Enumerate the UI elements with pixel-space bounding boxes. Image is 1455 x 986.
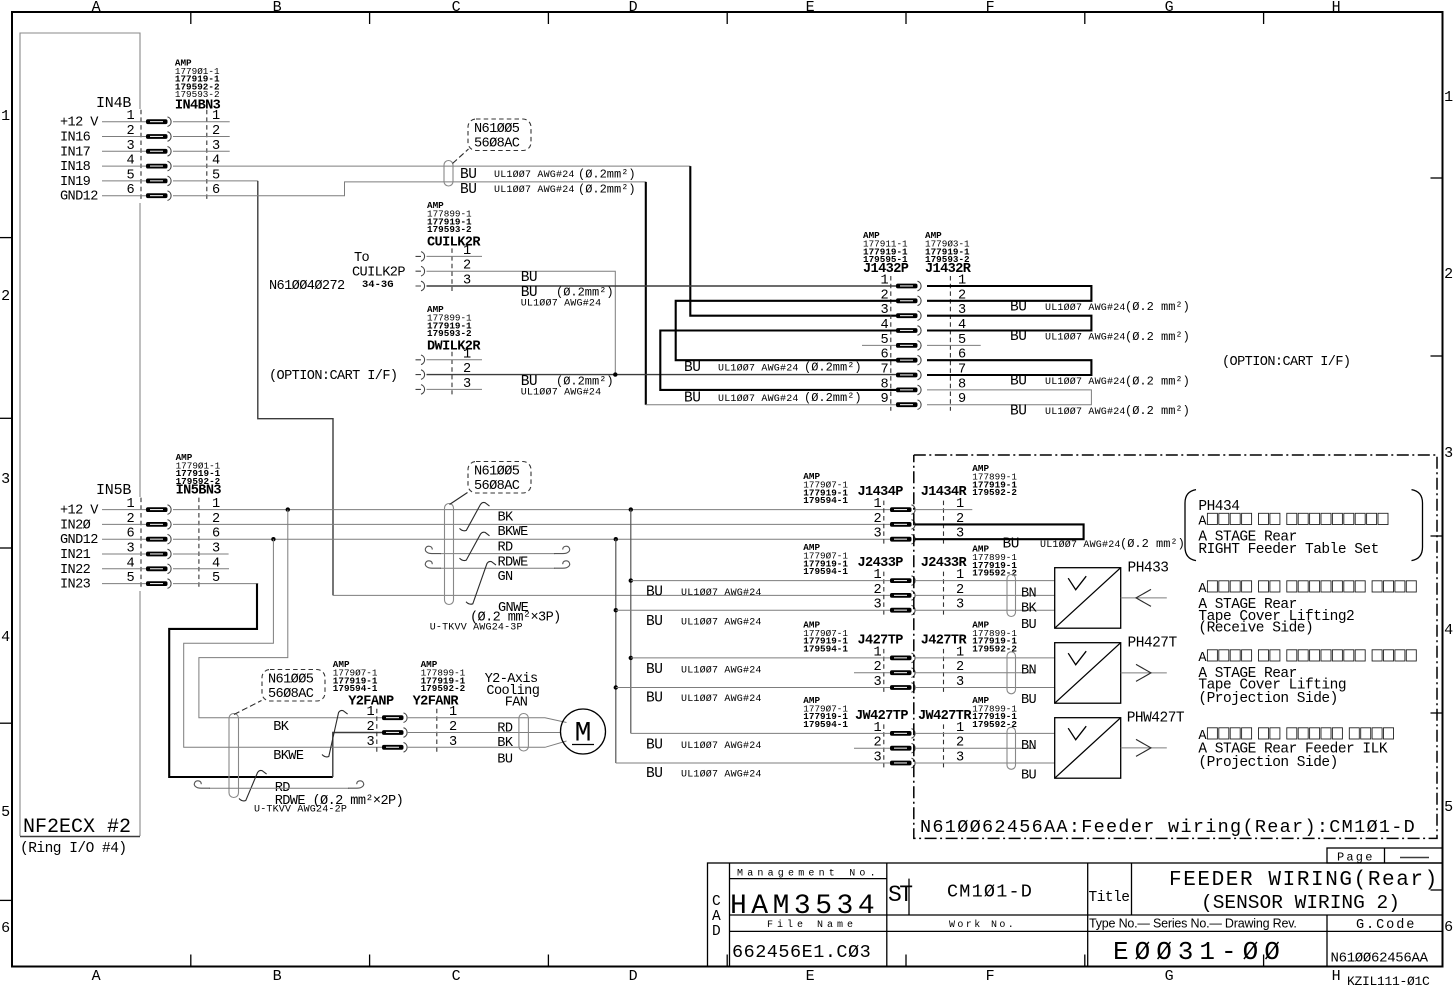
svg-text:IN23: IN23 [60,578,91,593]
part list AMP JW427TP [803,695,848,730]
svg-text:IN4BN3: IN4BN3 [175,99,221,114]
svg-text:Title: Title [1089,890,1130,906]
svg-text:N61ØØ5: N61ØØ5 [474,465,520,480]
svg-text:56Ø8AC: 56Ø8AC [268,687,314,702]
wire J427TP pin1 from +12V bus [629,656,633,660]
svg-text:179592-2: 179592-2 [972,643,1017,654]
wire JW427TP pin2 stub [854,747,890,749]
svg-text:BK: BK [273,720,290,735]
twist mark pair GN/GNWE [466,561,496,604]
svg-text:JW427TP: JW427TP [855,709,908,724]
svg-text:UL1ØØ7 AWG#24: UL1ØØ7 AWG#24 [1045,332,1126,344]
svg-text:IN17: IN17 [60,145,91,160]
svg-text:CUILK2R: CUILK2R [427,236,481,251]
part list AMP J427TR [972,619,1017,654]
wire IN18 BU UL1007 to J1432P pin3 [102,165,690,167]
part list AMP J2433R [972,544,1017,579]
wire J2433P pin1 from +12V bus [629,578,633,582]
svg-text:+12 V: +12 V [60,116,99,131]
svg-text:(Ring I/O #4): (Ring I/O #4) [20,841,127,857]
connector IN5B [60,482,220,593]
jp text: tape cover lifting2 (receive side) [1198,581,1416,597]
svg-text:1: 1 [1,108,10,125]
svg-text:179594-1: 179594-1 [803,643,848,654]
svg-text:UL1ØØ7 AWG#24: UL1ØØ7 AWG#24 [681,617,762,629]
wire loop J1434R pin2-pin3 BU [915,524,1084,539]
svg-text:N61ØØ62456AA: N61ØØ62456AA [1331,951,1429,967]
svg-text:J1432P: J1432P [863,262,909,277]
svg-text:EØØ31-ØØ: EØØ31-ØØ [1113,937,1286,967]
svg-text:2: 2 [1,288,10,305]
cable tie N61005 middle [445,504,454,605]
svg-text:BK: BK [498,510,515,525]
svg-text:A: A [92,968,101,985]
svg-text:BU: BU [1010,403,1026,419]
part list AMP J1434R [972,463,1017,498]
svg-text:BU: BU [1021,618,1037,633]
wire IN4B pin1 +12V stub [102,121,230,123]
svg-text:2: 2 [366,720,374,735]
svg-text:UL1ØØ7 AWG#24: UL1ØØ7 AWG#24 [1045,302,1126,314]
part list AMP J2433P [803,542,848,577]
svg-text:J1434P: J1434P [858,485,904,500]
twist mark pair RD/RDWE (fan) [239,770,267,800]
svg-text:J1432R: J1432R [925,262,972,277]
photo sensor PH433 [1055,568,1121,629]
svg-text:(Projection Side): (Projection Side) [1198,691,1337,707]
boundary N610062456AA feeder unit (dash-dot) [914,455,1437,838]
light beam arrow PHW427T [1121,739,1167,756]
svg-text:PH434: PH434 [1198,499,1239,515]
svg-text:J2433P: J2433P [858,556,904,571]
wire J2433P pin3 from GND bus [614,608,618,612]
svg-text:3: 3 [1,471,10,488]
svg-text:+12 V: +12 V [60,504,99,519]
svg-text:BU: BU [1010,300,1026,316]
svg-text:BK: BK [497,736,514,751]
svg-text:BKWE: BKWE [273,749,304,764]
svg-text:UL1ØØ7 AWG#24: UL1ØØ7 AWG#24 [681,664,762,676]
svg-text:N61ØØ62456AA:Feeder wiring(Rea: N61ØØ62456AA:Feeder wiring(Rear):CM1Ø1-D [920,817,1416,838]
wire IN23 RD to Y2FANP pin2 [102,583,258,585]
connector J1432P/J1432R [880,274,966,411]
svg-text:C: C [712,894,721,910]
wire JW427TP pin1 from +12V bus [631,732,890,734]
callout N61005 5608AC bottom [234,670,325,715]
svg-text:(OPTION:CART I/F): (OPTION:CART I/F) [1222,355,1350,370]
wire Y2FANR pin3 BU to fan [407,741,567,747]
svg-text:N61ØØ5: N61ØØ5 [474,122,520,137]
svg-text:IN21: IN21 [60,548,91,563]
svg-text:179594-1: 179594-1 [803,495,848,506]
connector JW427TP/JW427TR [873,721,964,768]
wire CUILK2R pin3 BU to J1432P pin1 [427,285,897,287]
svg-text:Type No.— Series No.— Drawing: Type No.— Series No.— Drawing Rev. [1089,917,1297,931]
wire IN19 to J2433P pin2 [102,180,258,182]
svg-text:HAM3534: HAM3534 [730,891,879,922]
light beam arrow PH427T [1121,664,1167,681]
svg-text:(Ø.2 mm²): (Ø.2 mm²) [1125,404,1190,418]
svg-text:UL1ØØ7 AWG#24: UL1ØØ7 AWG#24 [718,363,799,375]
svg-text:B: B [273,968,282,985]
wire loop J1432R pin8-pin9 BU [927,390,1091,405]
svg-text:9: 9 [880,392,888,407]
wire loop J1432R pin6-pin7 BU [927,360,1091,375]
cable tie N61005 top [444,161,453,187]
jp text: tape cover lifting (projection side) [1198,650,1416,666]
svg-text:DWILK2R: DWILK2R [427,340,481,355]
wire jumper J1432P pin4-pin8 BU [660,331,896,390]
svg-text:E: E [806,0,815,16]
callout N61005 5608AC top [453,119,532,164]
svg-text:B: B [273,0,282,16]
svg-text:(OPTION:CART I/F): (OPTION:CART I/F) [269,369,397,384]
svg-text:UL1ØØ7 AWG#24: UL1ØØ7 AWG#24 [494,184,575,196]
wires J427TR to PH427T with tie [915,658,1055,688]
part list AMP DWILK2R [427,304,472,339]
wire J427TP pin2 stub [854,672,890,674]
wire GN floating (0.2mm2x3P spare) [440,567,555,569]
svg-text:BU: BU [684,391,700,407]
wire RDWE floating (fan spare) + cable label [209,787,349,789]
wire Y2FANR pin1 RD to fan [407,718,567,723]
svg-text:BU: BU [1010,329,1026,345]
svg-text:BU: BU [1010,374,1026,390]
svg-text:UL1ØØ7 AWG#24: UL1ØØ7 AWG#24 [681,769,762,781]
svg-text:2: 2 [1444,266,1453,283]
part list AMP IN5BN3 [176,452,221,487]
svg-text:F: F [986,968,995,985]
svg-text:UL1ØØ7 AWG#24: UL1ØØ7 AWG#24 [521,387,602,399]
wire +12V BK to J1434P pin1 [102,509,890,511]
wire CUILK2R pin1 stub [427,255,483,257]
svg-text:4: 4 [1,629,10,646]
svg-text:RD: RD [497,721,513,736]
svg-text:3: 3 [880,303,888,318]
part list AMP IN4BN3 [175,57,220,100]
svg-text:(Ø.2 mm²): (Ø.2 mm²) [1125,330,1190,344]
connector CUILK2R [416,244,472,291]
svg-text:G.Code: G.Code [1356,918,1416,933]
cable tie N61005 bottom [229,714,239,798]
svg-text:3: 3 [1444,445,1453,462]
svg-text:(Ø.2 mm²): (Ø.2 mm²) [1120,537,1185,551]
svg-text:5: 5 [1444,799,1453,816]
svg-text:IN19: IN19 [60,175,91,190]
svg-text:1: 1 [1444,89,1453,106]
connector DWILK2R [416,347,472,394]
svg-text:34-3G: 34-3G [362,279,394,291]
part list AMP J1432P [863,230,908,265]
wire IN21 stub [102,553,229,555]
wire GND12 BU UL1007 to J1432P pin9 [102,182,646,196]
svg-text:J427TR: J427TR [921,633,968,648]
svg-text:4: 4 [1444,622,1453,639]
svg-text:ST: ST [888,882,912,908]
svg-text:C: C [452,968,461,985]
wire IN22 stub [102,568,229,570]
svg-text:(SENSOR WIRING 2): (SENSOR WIRING 2) [1201,892,1400,914]
svg-text:3: 3 [873,527,881,542]
svg-text:2: 2 [873,583,881,598]
svg-text:FAN: FAN [505,696,528,711]
svg-text:BU: BU [646,585,662,601]
svg-text:179593-2: 179593-2 [427,328,472,339]
svg-text:179592-2: 179592-2 [972,487,1017,498]
wire IN4B pin3 IN17 stub [102,150,230,152]
part list AMP J1434P [803,471,848,506]
svg-text:H: H [1332,0,1341,16]
svg-text:(Ø.2mm²): (Ø.2mm²) [578,168,636,182]
svg-text:J427TP: J427TP [858,633,904,648]
svg-text:UL1ØØ7 AWG#24: UL1ØØ7 AWG#24 [1040,539,1121,551]
svg-text:NF2ECX #2: NF2ECX #2 [23,816,131,839]
svg-text:BU: BU [1021,769,1037,784]
svg-text:JW427TR: JW427TR [918,709,972,724]
svg-text:GN: GN [498,570,514,585]
svg-text:BK: BK [1021,602,1038,617]
svg-text:Y2FANP: Y2FANP [348,695,394,710]
svg-text:56Ø8AC: 56Ø8AC [474,137,520,152]
svg-text:BU: BU [1003,536,1019,552]
wire IN4B pin2 IN16 stub [102,136,230,138]
svg-text:A: A [92,0,101,16]
motor M (Y2-Axis cooling fan) [561,709,606,754]
svg-text:D: D [629,0,638,16]
svg-text:BU: BU [646,691,662,707]
wire loop J1432R pin1-pin2 BU [927,286,1091,301]
svg-text:File Name: File Name [767,919,857,931]
wire IN20 BKWE to J1434P pin2 [102,523,890,525]
wire branch GND12 BKWE to Y2FANP pin3 [271,537,275,541]
svg-text:IN16: IN16 [60,131,91,146]
svg-text:(Ø.2 mm²): (Ø.2 mm²) [1125,300,1190,314]
svg-text:KZIL111-Ø1C: KZIL111-Ø1C [1347,974,1430,986]
connector J427TP/J427TR [873,645,964,692]
svg-text:To: To [354,251,370,266]
svg-text:Y2FANR: Y2FANR [413,695,460,710]
svg-text:H: H [1332,968,1341,985]
wire RDWE floating (0.2mm2x3P spare) [440,553,555,555]
svg-text:BU: BU [646,766,662,782]
svg-text:U-TKVV AWG24-2P: U-TKVV AWG24-2P [254,805,347,816]
svg-text:UL1ØØ7 AWG#24: UL1ØØ7 AWG#24 [1045,406,1126,418]
svg-text:J1434R: J1434R [921,485,968,500]
svg-text:J2433R: J2433R [921,556,968,571]
svg-text:BN: BN [1021,664,1037,679]
svg-text:IN2Ø: IN2Ø [60,518,91,533]
NF2ECX #2 unit box [20,33,140,836]
svg-text:IN18: IN18 [60,160,91,175]
svg-text:Management No.: Management No. [737,869,880,880]
svg-text:D: D [712,924,720,940]
connector J2433P/J2433R [873,568,964,615]
svg-text:GND12: GND12 [60,533,98,548]
svg-text:179594-1: 179594-1 [803,719,848,730]
wire branch +12V BK to Y2FANP pin1 [286,507,290,511]
svg-text:(Ø.2mm²): (Ø.2mm²) [804,361,862,375]
svg-text:IN5BN3: IN5BN3 [176,484,222,499]
svg-text:D: D [629,968,638,985]
wire loop J1432R pin3-pin4 BU [927,316,1091,331]
svg-text:BU: BU [646,614,662,630]
twist mark pair BK/BKWE [460,502,490,530]
svg-text:BN: BN [1021,739,1037,754]
svg-text:N61ØØ4Ø272: N61ØØ4Ø272 [269,279,345,294]
svg-text:UL1ØØ7 AWG#24: UL1ØØ7 AWG#24 [718,393,799,405]
svg-text:F: F [986,0,995,16]
svg-text:3: 3 [366,735,374,750]
svg-text:GND12: GND12 [60,190,98,205]
wire Y2FANR pin2 BK to fan [407,732,561,734]
wire DWILK2R pin1 stub [427,359,483,361]
svg-text:6: 6 [1444,919,1453,936]
junction CUILK2R pin2 / DWILK2R pin2 [613,372,617,376]
svg-text:UL1ØØ7 AWG#24: UL1ØØ7 AWG#24 [681,740,762,752]
wire jumper J1432P pin2-pin6 BU [676,301,896,360]
svg-text:5: 5 [1,804,10,821]
wire DWILK2R pin3 stub [427,388,483,390]
svg-text:662456E1.CØ3: 662456E1.CØ3 [732,942,871,963]
svg-text:(Projection Side): (Projection Side) [1198,755,1337,771]
part list AMP J427TP [803,619,848,654]
photo sensor PH427T [1055,643,1121,704]
svg-text:FEEDER WIRING(Rear): FEEDER WIRING(Rear) [1169,869,1439,892]
part list AMP Y2FANR [421,659,466,694]
svg-text:(Ø.2 mm²): (Ø.2 mm²) [1125,374,1190,388]
svg-text:(Ø.2mm²): (Ø.2mm²) [804,391,862,405]
svg-text:Work No.: Work No. [949,919,1016,931]
svg-text:UL1ØØ7 AWG#24: UL1ØØ7 AWG#24 [1045,376,1126,388]
wire J1432P pin5 stub [862,344,896,346]
twist mark pair RD/RDWE [460,532,490,560]
page box [1327,848,1443,865]
svg-text:A: A [712,909,721,925]
wire DWILK2R pin2 BU to J1432P pin7 [427,374,897,376]
svg-text:2: 2 [873,512,881,527]
svg-text:BU: BU [646,662,662,678]
svg-text:56Ø8AC: 56Ø8AC [474,479,520,494]
svg-text:179592-2: 179592-2 [421,683,466,694]
svg-text:179594-1: 179594-1 [333,683,378,694]
svg-text:179592-2: 179592-2 [972,719,1017,730]
title block frame [708,863,1443,967]
svg-text:BU: BU [460,167,476,183]
wire J427TP pin3 from GND bus [614,685,618,689]
svg-text:PH433: PH433 [1128,560,1169,576]
jp text: A stage rear right feeder table set [1198,513,1388,529]
svg-text:BU: BU [1021,693,1037,708]
svg-text:RD: RD [498,541,514,556]
wires JW427TR to PHW427T with tie [915,733,1055,763]
svg-text:179594-1: 179594-1 [803,566,848,577]
bracket PH434 note [1185,490,1196,561]
svg-text:UL1ØØ7 AWG#24: UL1ØØ7 AWG#24 [681,693,762,705]
svg-text:U-TKVV AWG24-3P: U-TKVV AWG24-3P [430,622,523,633]
svg-text:BN: BN [1021,586,1037,601]
svg-text:PH427T: PH427T [1128,635,1178,651]
svg-text:BU: BU [521,270,537,286]
svg-text:179593-2: 179593-2 [427,224,472,235]
wire J1432R pin5 stub [927,344,981,346]
connector Y2FANP/Y2FANR [366,705,457,752]
connector J1434P/J1434R [873,497,964,544]
svg-text:C: C [452,0,461,16]
svg-text:BU: BU [684,360,700,376]
part list AMP CUILK2R [427,200,472,235]
connector IN4B [60,95,220,205]
svg-text:G: G [1165,0,1174,16]
jp text: feeder ILK (projection side) [1198,728,1393,744]
twist mark pair BK/BKWE (fan) [322,710,348,756]
part list AMP J1432R [925,230,970,265]
svg-text:PHW427T: PHW427T [1127,710,1185,726]
svg-text:G: G [1165,968,1174,985]
svg-text:RDWE: RDWE [498,555,529,570]
cable tie at fan [519,714,529,752]
svg-text:BKWE: BKWE [498,525,529,540]
svg-text:6: 6 [1,920,10,937]
svg-text:E: E [806,968,815,985]
wires J2433R to PH433 with tie [915,581,1055,611]
wire J1434R pin1 stub [915,509,972,511]
wire GND12 RD to J1434P pin3 [102,538,890,540]
bus GND12 (BU) vertical [614,537,618,541]
svg-text:179592-2: 179592-2 [972,568,1017,579]
svg-text:CM1Ø1-D: CM1Ø1-D [947,882,1033,903]
svg-text:(Ø.2mm²): (Ø.2mm²) [578,183,636,197]
wire JW427TP pin3 from GND bus [616,762,890,764]
svg-text:UL1ØØ7 AWG#24: UL1ØØ7 AWG#24 [521,298,602,310]
svg-text:(Receive Side): (Receive Side) [1198,621,1313,637]
wire CUILK2R pin2 to junction DWILK2R pin2 [427,271,616,374]
light beam arrow PH433 [1121,589,1167,606]
svg-text:IN22: IN22 [60,563,91,578]
svg-text:UL1ØØ7 AWG#24: UL1ØØ7 AWG#24 [681,587,762,599]
svg-text:BU: BU [460,182,476,198]
part list AMP Y2FANP [333,659,378,694]
photo sensor PHW427T [1055,718,1121,779]
svg-text:7: 7 [880,363,888,378]
svg-text:RIGHT Feeder Table Set: RIGHT Feeder Table Set [1198,542,1378,558]
svg-text:BU: BU [497,752,513,767]
part list AMP JW427TR [972,695,1017,730]
svg-text:N61ØØ5: N61ØØ5 [268,673,314,688]
svg-text:UL1ØØ7 AWG#24: UL1ØØ7 AWG#24 [494,169,575,181]
svg-text:BU: BU [646,737,662,753]
bus +12V (BU) vertical [629,507,633,511]
callout N61005 5608AC middle [450,462,532,505]
